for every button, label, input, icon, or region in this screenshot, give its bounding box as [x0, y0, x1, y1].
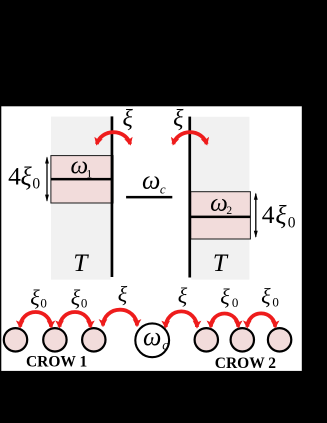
- resonator 5: [231, 328, 254, 351]
- svg-text:ξ: ξ: [21, 162, 33, 191]
- svg-text:0: 0: [272, 295, 279, 310]
- svg-text:ω: ω: [210, 190, 228, 217]
- svg-text:ξ: ξ: [220, 284, 230, 309]
- left mirror line: [111, 116, 114, 277]
- left pink cavity band: [51, 156, 113, 203]
- svg-text:ξ: ξ: [71, 285, 81, 310]
- right gray slab: [191, 117, 249, 280]
- coupling arc xi0 between resonators 5-6: [247, 313, 275, 326]
- svg-text:c: c: [160, 182, 166, 197]
- svg-text:4: 4: [262, 200, 275, 229]
- left 4xi0 measure arrow: [46, 158, 48, 201]
- svg-text:0: 0: [288, 214, 296, 231]
- svg-text:ξ: ξ: [30, 285, 40, 310]
- right band mid level line: [191, 216, 251, 219]
- svg-text:T: T: [73, 248, 89, 277]
- resonator 6: [268, 328, 291, 351]
- svg-text:ξ: ξ: [173, 106, 184, 132]
- svg-text:0: 0: [32, 176, 40, 193]
- left gray slab: [51, 117, 111, 280]
- svg-text:ξ: ξ: [118, 282, 128, 307]
- right mirror line: [188, 117, 191, 278]
- resonator 3: [82, 328, 105, 351]
- svg-text:ω: ω: [143, 322, 161, 351]
- red coupling arc over left mirror: [97, 132, 130, 144]
- svg-text:ξ: ξ: [178, 283, 188, 308]
- svg-text:0: 0: [81, 296, 88, 311]
- svg-text:CROW 1: CROW 1: [26, 354, 87, 371]
- svg-text:0: 0: [40, 296, 47, 311]
- omega_c level line: [126, 196, 172, 199]
- coupling arc xi0 between resonators 1-2: [20, 312, 51, 327]
- svg-text:ξ: ξ: [123, 106, 134, 132]
- svg-text:0: 0: [232, 295, 239, 310]
- white panel: [1, 106, 302, 371]
- coupling arc xi resonator3 to cavity: [103, 310, 137, 326]
- right pink cavity band: [191, 192, 251, 239]
- svg-text:ω: ω: [142, 165, 160, 194]
- right 4xi0 measure arrow: [255, 194, 257, 237]
- coupling arc xi0 between resonators 2-3: [60, 312, 91, 327]
- central cavity circle omega_c: [135, 323, 169, 357]
- resonator 1: [4, 328, 27, 351]
- red coupling arc over right mirror: [173, 132, 206, 144]
- svg-text:c: c: [162, 338, 168, 353]
- svg-text:CROW 2: CROW 2: [215, 355, 277, 372]
- svg-text:ξ: ξ: [275, 201, 287, 230]
- svg-text:1: 1: [86, 166, 92, 180]
- coupling arc xi0 between resonators 4-5: [211, 314, 238, 327]
- coupling arc xi cavity to resonator4: [166, 311, 197, 327]
- svg-text:2: 2: [226, 205, 232, 217]
- svg-text:4: 4: [8, 161, 21, 190]
- left band mid level line: [51, 178, 113, 181]
- svg-text:ξ: ξ: [261, 284, 271, 309]
- svg-text:T: T: [213, 248, 229, 277]
- resonator 2: [43, 328, 66, 351]
- resonator 4: [195, 328, 218, 351]
